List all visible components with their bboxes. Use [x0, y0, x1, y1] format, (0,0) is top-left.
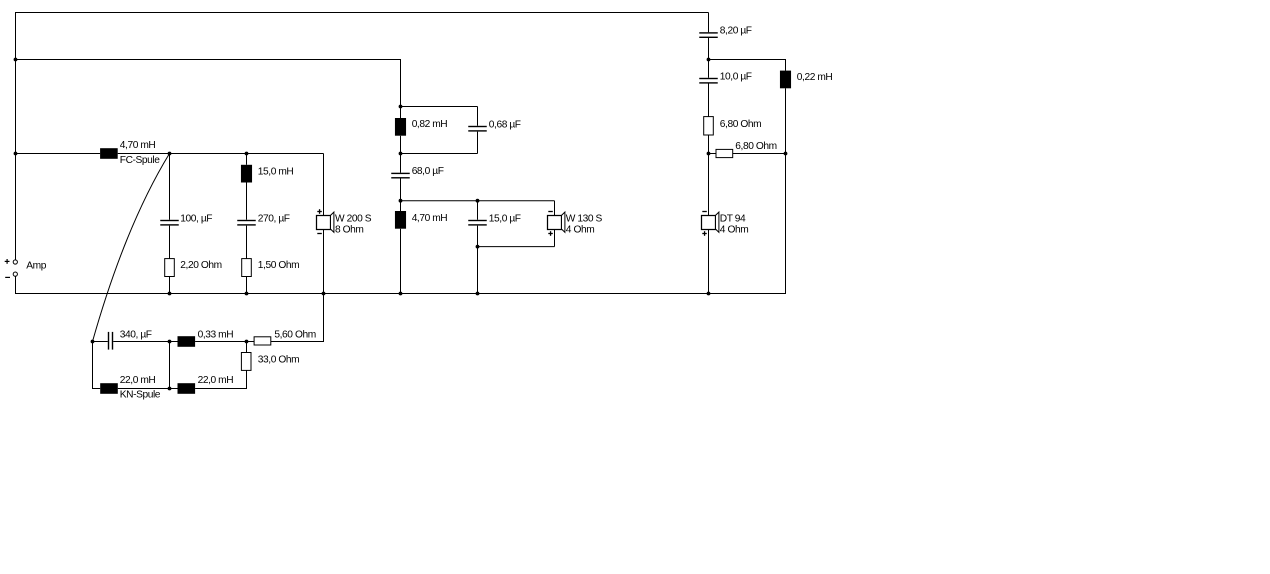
svg-text:KN-Spule: KN-Spule — [120, 390, 161, 401]
wire — [323, 154, 325, 216]
svg-text:68,0 µF: 68,0 µF — [412, 166, 444, 177]
junction — [707, 292, 711, 296]
wire — [15, 12, 709, 14]
wire — [554, 230, 556, 247]
svg-text:6,80 Ohm: 6,80 Ohm — [735, 141, 776, 152]
wire — [400, 59, 402, 107]
amp + terminal — [13, 260, 17, 264]
junction — [476, 292, 480, 296]
wire — [477, 132, 479, 154]
wire — [708, 83, 710, 116]
wire — [708, 230, 710, 294]
inductor 22,0 mH — [178, 383, 196, 394]
svg-text:10,0 µF: 10,0 µF — [720, 71, 752, 82]
svg-text:22,0 mH: 22,0 mH — [198, 375, 234, 386]
wire — [195, 341, 254, 343]
capacitor 0,68 uF — [468, 126, 487, 127]
svg-text:22,0 mH: 22,0 mH — [120, 375, 156, 386]
wire — [708, 38, 710, 78]
svg-text:8 Ohm: 8 Ohm — [335, 225, 363, 236]
wire — [15, 293, 786, 295]
svg-text:0,22 mH: 0,22 mH — [797, 72, 833, 83]
svg-text:340, µF: 340, µF — [120, 330, 152, 341]
wire — [785, 59, 787, 71]
wire — [246, 226, 248, 259]
junction — [399, 292, 403, 296]
svg-text:4,70 mH: 4,70 mH — [120, 140, 156, 151]
svg-text:33,0 Ohm: 33,0 Ohm — [258, 354, 299, 365]
inductor 22,0 mH KN-Spule — [100, 383, 118, 394]
svg-text:W 200 S: W 200 S — [335, 213, 372, 224]
inductor 0,33 mH — [178, 336, 196, 347]
junction — [399, 152, 403, 156]
wire — [477, 107, 479, 126]
resistor 1,50 Ohm — [242, 259, 252, 277]
svg-text:4 Ohm: 4 Ohm — [720, 225, 748, 236]
junction — [245, 340, 249, 344]
resistor 6,80 Ohm horizontal — [716, 149, 733, 157]
wire — [246, 183, 248, 220]
wire — [246, 370, 248, 389]
svg-text:4,70 mH: 4,70 mH — [412, 213, 448, 224]
wire — [733, 153, 786, 155]
capacitor 15,0 uF — [468, 220, 487, 221]
svg-text:5,60 Ohm: 5,60 Ohm — [274, 329, 315, 340]
junction — [168, 387, 172, 391]
capacitor 8,20 uF — [699, 32, 718, 33]
svg-text:2,20 Ohm: 2,20 Ohm — [180, 260, 221, 271]
wire — [93, 154, 170, 342]
speaker W 130 S — [548, 216, 562, 230]
wire — [246, 277, 248, 294]
wire — [401, 106, 478, 108]
wire — [15, 59, 401, 61]
svg-text:270, µF: 270, µF — [258, 213, 290, 224]
speaker W 200 S — [317, 216, 331, 230]
inductor 4,70 mH FC-Spule — [100, 148, 118, 159]
svg-text:FC-Spule: FC-Spule — [120, 155, 160, 166]
svg-text:8,20 µF: 8,20 µF — [720, 26, 752, 37]
resistor 2,20 Ohm — [165, 259, 175, 277]
junction — [476, 199, 480, 203]
wire — [15, 153, 100, 155]
junction — [91, 340, 95, 344]
wire — [246, 154, 248, 165]
svg-text:100, µF: 100, µF — [180, 213, 212, 224]
wire — [477, 201, 479, 220]
wire — [323, 230, 325, 294]
wire — [15, 12, 17, 260]
svg-text:Amp: Amp — [26, 260, 46, 271]
svg-text:1,50 Ohm: 1,50 Ohm — [258, 260, 299, 271]
svg-text:W 130 S: W 130 S — [566, 213, 603, 224]
wire — [246, 342, 248, 353]
wire — [169, 154, 171, 220]
svg-text:15,0 µF: 15,0 µF — [489, 213, 521, 224]
wire — [195, 388, 246, 390]
inductor 4,70 mH — [395, 211, 406, 229]
wire — [401, 153, 478, 155]
wire — [478, 246, 555, 248]
wire — [709, 153, 717, 155]
wire — [477, 226, 479, 294]
amp - terminal — [13, 272, 17, 276]
wire — [785, 88, 787, 293]
svg-text:4 Ohm: 4 Ohm — [566, 225, 594, 236]
junction — [707, 152, 711, 156]
wire — [271, 341, 324, 343]
wire — [708, 13, 710, 33]
wire — [400, 179, 402, 212]
wire — [323, 294, 325, 343]
wire — [554, 201, 556, 216]
capacitor 270 uF — [237, 220, 256, 221]
capacitor 10,0 uF — [699, 78, 718, 79]
wire — [169, 342, 171, 389]
svg-text:0,68 µF: 0,68 µF — [489, 119, 521, 130]
wire — [93, 388, 101, 390]
junction — [245, 292, 249, 296]
junction — [322, 292, 326, 296]
wire — [709, 59, 786, 61]
wire — [169, 277, 171, 294]
wire — [400, 136, 402, 173]
wire — [400, 229, 402, 294]
capacitor 100 uF — [160, 220, 179, 221]
junction — [168, 292, 172, 296]
junction — [476, 245, 480, 249]
wire — [400, 107, 402, 119]
svg-text:0,33 mH: 0,33 mH — [198, 330, 234, 341]
svg-text:0,82 mH: 0,82 mH — [412, 119, 448, 130]
wire — [113, 341, 177, 343]
svg-text:6,80 Ohm: 6,80 Ohm — [720, 119, 761, 130]
speaker DT 94 — [702, 216, 716, 230]
capacitor 340 uF — [108, 332, 109, 350]
resistor 33,0 Ohm — [241, 353, 251, 371]
wire — [15, 276, 17, 294]
junction — [168, 340, 172, 344]
wire — [708, 135, 710, 216]
svg-text:15,0 mH: 15,0 mH — [258, 166, 294, 177]
junction — [784, 152, 788, 156]
junction — [14, 58, 18, 62]
resistor 5,60 Ohm — [254, 337, 271, 345]
svg-text:DT 94: DT 94 — [720, 213, 746, 224]
wire — [169, 226, 171, 259]
junction — [399, 199, 403, 203]
wire — [118, 153, 324, 155]
wire — [118, 388, 178, 390]
inductor 15,0 mH — [241, 165, 252, 183]
resistor 6,80 Ohm vertical — [704, 117, 714, 135]
junction — [245, 152, 249, 156]
junction — [399, 105, 403, 109]
capacitor 68,0 uF — [391, 173, 410, 174]
wire — [93, 341, 108, 343]
junction — [168, 152, 172, 156]
wire — [401, 200, 555, 202]
junction — [707, 58, 711, 62]
inductor 0,22 mH — [780, 71, 791, 89]
inductor 0,82 mH — [395, 118, 406, 136]
junction — [14, 152, 18, 156]
wire — [92, 342, 94, 390]
